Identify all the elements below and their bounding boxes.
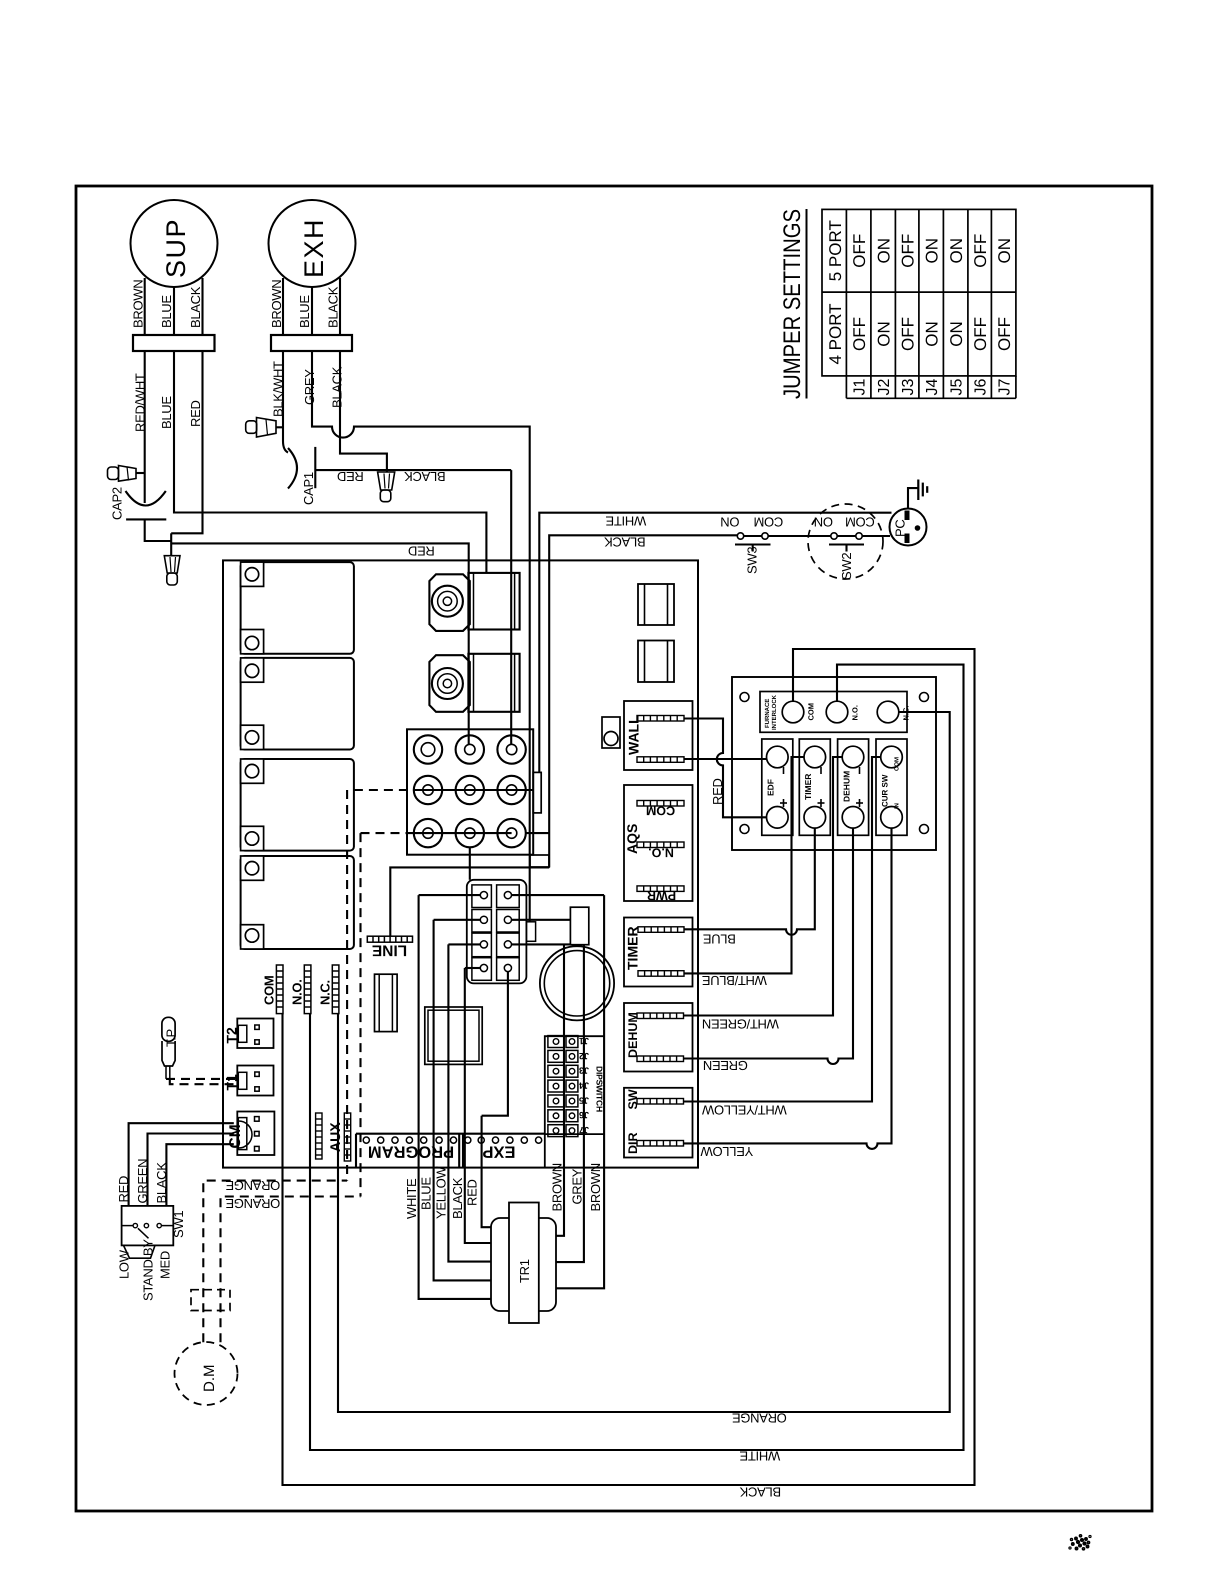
svg-text:J1: J1 (852, 379, 869, 396)
connector WALL (624, 701, 693, 770)
terminal block 9-pos (407, 729, 541, 854)
switch SW1 (122, 1206, 186, 1258)
wire SUP black (201, 278, 203, 335)
svg-text:WHT/BLUE: WHT/BLUE (701, 973, 766, 988)
svg-text:SW1: SW1 (171, 1211, 186, 1238)
wire RED from SUP (171, 351, 202, 533)
DIP switch block (548, 1036, 578, 1137)
dashed orange wire 2 (221, 1197, 361, 1343)
svg-text:ON: ON (875, 321, 894, 347)
wire nut splice EXH (378, 472, 395, 502)
relay K4 (241, 856, 354, 949)
svg-text:BLACK: BLACK (154, 1162, 169, 1204)
relay K2 (241, 658, 354, 750)
interlock strip CUR SW (876, 739, 907, 835)
wire TR1 blue (434, 920, 491, 1281)
connector T1 (224, 1066, 274, 1096)
svg-text:ON: ON (923, 321, 942, 347)
svg-text:BLUE: BLUE (159, 396, 174, 429)
svg-text:YELLOW: YELLOW (700, 1144, 753, 1159)
svg-text:COM: COM (262, 976, 277, 1005)
dashed link relay K3 to terminal (354, 789, 414, 791)
sensor by WALL (602, 717, 620, 748)
svg-text:T.P: T.P (164, 1029, 179, 1047)
svg-text:DEHUM: DEHUM (626, 1012, 640, 1058)
connector TIMER (624, 918, 693, 987)
svg-text:OFF: OFF (995, 317, 1014, 351)
wire pin1L to white riser (419, 894, 481, 896)
wire TR1 black (465, 968, 491, 1243)
wire interlock COM loop (BLACK) (283, 649, 975, 1485)
wire middle row bus (414, 789, 533, 791)
switch SW3 (735, 533, 771, 574)
svg-text:WHITE: WHITE (404, 1178, 419, 1219)
svg-text:GREEN: GREEN (703, 1058, 748, 1073)
svg-text:GREEN: GREEN (135, 1159, 150, 1204)
svg-text:OFF: OFF (899, 234, 918, 268)
wire nut CAP2 lead (108, 466, 145, 482)
svg-text:RED: RED (116, 1176, 131, 1203)
transformer TR1 (491, 1203, 556, 1324)
svg-text:GREY: GREY (570, 1168, 585, 1204)
svg-text:FURNACE: FURNACE (764, 699, 771, 728)
wire bottom-right to black riser (526, 832, 549, 834)
dashed wire T.P to T1 (166, 1079, 238, 1084)
dashed link relay K4 to terminal (361, 832, 414, 834)
svg-text:D.M: D.M (201, 1365, 218, 1393)
power plug PC (890, 509, 927, 546)
svg-text:OFF: OFF (850, 234, 869, 268)
wire WHT/YELLOW sw (684, 757, 881, 1102)
wire interlock N.C. loop (ORANGE) (338, 712, 950, 1412)
svg-text:TR1: TR1 (517, 1259, 532, 1283)
interlock strip EDF (762, 739, 793, 835)
svg-text:IN: IN (894, 803, 901, 809)
svg-text:N.O.: N.O. (290, 979, 305, 1005)
wire SW3 to SW2 (768, 535, 831, 537)
wire YELLOW dir with bump (684, 828, 892, 1149)
buzzer BZ1 (540, 946, 614, 1020)
wire RED/WHT (144, 351, 146, 503)
jumper settings table (779, 209, 1016, 399)
svg-text:OFF: OFF (899, 317, 918, 351)
svg-text:BLACK: BLACK (326, 286, 341, 328)
wire pin4L to black riser (465, 967, 481, 969)
connector AQS (624, 785, 693, 903)
svg-text:COM: COM (894, 757, 901, 771)
control board outline (223, 560, 698, 1167)
wire RED run to terminal (171, 543, 469, 745)
svg-text:T1: T1 (224, 1074, 240, 1091)
svg-text:TIMER: TIMER (803, 774, 813, 800)
wire pin3R to brown1 riser (512, 943, 571, 945)
svg-text:BLUE: BLUE (159, 295, 174, 328)
svg-text:ON: ON (947, 238, 966, 264)
svg-text:RED: RED (465, 1179, 480, 1206)
svg-text:BLACK: BLACK (404, 469, 446, 484)
svg-text:ORANGE: ORANGE (225, 1196, 280, 1211)
svg-text:ORANGE: ORANGE (732, 1410, 787, 1425)
wire bottom-middle stub down (469, 847, 471, 880)
wire bottom row bus (414, 832, 512, 834)
interlock strip DEHUM (838, 739, 869, 835)
svg-text:CUR SW: CUR SW (881, 774, 890, 807)
fuse component F3 (638, 641, 674, 683)
connector CN1 8-pin (467, 880, 536, 984)
svg-text:AUX: AUX (327, 1122, 343, 1152)
pin strip N.O. (304, 965, 311, 1014)
pin row circles (363, 1137, 542, 1143)
svg-text:RED: RED (408, 544, 435, 559)
motor EXH (269, 200, 356, 287)
wire GREEN dehum with bump (684, 828, 853, 1064)
wire CM green (148, 1134, 234, 1206)
relay RY1 (425, 1007, 482, 1064)
wire WHT/BLUE timer (684, 757, 804, 973)
HV terminal 1 (429, 573, 519, 631)
svg-text:OFF: OFF (971, 234, 990, 268)
wire EXH brown (282, 278, 284, 335)
fuse F1 (375, 974, 398, 1031)
component small box (530, 855, 549, 867)
svg-text:SW2: SW2 (839, 553, 854, 580)
svg-text:RED: RED (337, 469, 364, 484)
svg-text:COM: COM (807, 703, 816, 721)
svg-text:N.O.: N.O. (648, 846, 674, 860)
wire pin2R to component (512, 919, 571, 921)
svg-text:ON: ON (721, 515, 740, 530)
svg-text:N.O.: N.O. (851, 705, 860, 720)
wire WHT/GREEN dehum (684, 757, 842, 1016)
dashed riser to orange 1 (346, 790, 348, 1181)
wire TR1 red (482, 1116, 491, 1228)
svg-text:J3: J3 (900, 379, 917, 396)
svg-text:DEHUM: DEHUM (842, 771, 852, 802)
svg-text:OFF: OFF (850, 317, 869, 351)
svg-text:BROWN: BROWN (131, 280, 146, 328)
switch SW2 (808, 504, 883, 580)
interlock strip TIMER (799, 739, 830, 835)
svg-text:BLUE: BLUE (419, 1177, 434, 1210)
svg-text:PROGRAM: PROGRAM (368, 1143, 454, 1161)
wire SW2 to plug (862, 535, 890, 537)
program header band (356, 1134, 545, 1168)
wire GREY with crossover bump (312, 351, 530, 922)
connector bar EXH (271, 335, 352, 351)
damper coupling (191, 1290, 230, 1311)
svg-text:STAND BY: STAND BY (141, 1239, 156, 1301)
wire nut splice SUP (164, 556, 180, 585)
wire BLK/WHT (283, 351, 288, 453)
svg-text:COM: COM (646, 804, 675, 818)
jumper values row 5 PORT (850, 234, 1014, 268)
svg-text:BROWN: BROWN (588, 1163, 603, 1211)
svg-text:ON: ON (995, 238, 1014, 264)
wire TR1 brown 2 (556, 895, 604, 1288)
svg-text:J6: J6 (973, 379, 990, 396)
wire splice junction vertical (170, 533, 172, 555)
wire WHITE to plug (539, 513, 891, 773)
svg-text:CAP1: CAP1 (301, 472, 316, 505)
svg-text:WALL: WALL (626, 715, 642, 755)
DIP switch enclosure (545, 1036, 604, 1167)
svg-text:ON: ON (947, 321, 966, 347)
svg-text:RED: RED (188, 400, 203, 427)
ground (908, 480, 927, 509)
wire WALL top to EDF+ (684, 719, 767, 818)
svg-text:AQS: AQS (624, 824, 640, 854)
pin strip COM (276, 965, 283, 1014)
svg-text:BLACK: BLACK (188, 286, 203, 328)
svg-text:J2: J2 (876, 379, 893, 396)
svg-text:BLACK: BLACK (739, 1484, 781, 1499)
border frame (76, 186, 1152, 1511)
svg-text:J5: J5 (949, 379, 966, 396)
svg-text:WHITE: WHITE (739, 1448, 780, 1463)
svg-text:CAP2: CAP2 (110, 487, 125, 520)
svg-text:BROWN: BROWN (269, 280, 284, 328)
svg-text:BROWN: BROWN (550, 1163, 565, 1211)
svg-text:SW3: SW3 (745, 547, 760, 574)
wire BLACK from EXH (340, 351, 387, 472)
wire pin1R to brown2 riser (512, 894, 605, 896)
svg-text:JUMPER SETTINGS: JUMPER SETTINGS (779, 209, 806, 399)
wire CM red (129, 1123, 234, 1206)
wire nut CAP1 lead (246, 418, 283, 438)
svg-text:ON: ON (814, 515, 833, 530)
jumper labels J1-J7 (852, 379, 1014, 396)
wire BLACK to plug (549, 535, 737, 867)
svg-text:RED: RED (710, 778, 725, 805)
wire BLUE from SUP (174, 351, 486, 573)
wire TR1 grey (556, 945, 584, 1262)
connector T2 (224, 1019, 274, 1049)
svg-text:ON: ON (923, 238, 942, 264)
svg-text:DIPSWITCH: DIPSWITCH (595, 1066, 605, 1112)
relay K3 (241, 759, 354, 851)
wire pin3L to yellow riser (448, 943, 480, 945)
svg-text:COM: COM (754, 515, 783, 530)
wire CAP1 plate to splice (315, 469, 511, 471)
wire EXH black (339, 278, 341, 335)
wire SUP blue (173, 287, 175, 335)
svg-text:EDF: EDF (766, 779, 776, 796)
pin strip AUX right (344, 1113, 350, 1161)
svg-text:LOW: LOW (117, 1249, 132, 1279)
svg-text:PWR: PWR (647, 889, 676, 903)
pin strip AUX left (316, 1113, 322, 1159)
svg-text:N.C.: N.C. (318, 980, 333, 1005)
svg-text:BLUE: BLUE (702, 931, 735, 946)
wire BLUE timer with bump (684, 828, 815, 935)
pin strip LINE (367, 936, 412, 942)
connector bar SUP (133, 335, 215, 351)
furnace interlock panel (732, 677, 936, 850)
svg-text:EXH: EXH (299, 218, 329, 278)
wire TR1 brown 1 (556, 944, 564, 1235)
component box R2 (570, 907, 588, 945)
svg-text:PC: PC (893, 520, 908, 537)
wire WALL bottom to EDF- (684, 758, 767, 760)
wire TR1 yellow (448, 944, 491, 1261)
svg-text:COM: COM (845, 515, 874, 530)
printer mark (1069, 1535, 1090, 1550)
capacitor CAP1 (288, 447, 316, 505)
capacitor CAP2 (110, 487, 167, 520)
fuse component F2 (638, 584, 674, 625)
wire EXH blue (311, 287, 313, 335)
svg-text:BLACK: BLACK (450, 1177, 465, 1219)
svg-text:MED: MED (158, 1251, 173, 1279)
svg-text:SW: SW (626, 1089, 640, 1109)
wire SUP brown (144, 278, 146, 335)
pin strip N.C. (332, 965, 339, 1014)
svg-text:INTERLOCK: INTERLOCK (771, 694, 778, 730)
svg-text:ORANGE: ORANGE (225, 1178, 280, 1193)
svg-text:5 PORT: 5 PORT (826, 220, 845, 281)
dashed riser to orange 2 (359, 833, 361, 1196)
connector CM (227, 1112, 274, 1156)
svg-text:GREY: GREY (302, 369, 317, 405)
svg-text:BLUE: BLUE (297, 295, 312, 328)
connector DEHUM (624, 1003, 693, 1072)
svg-text:ON: ON (875, 238, 894, 264)
svg-text:SUP: SUP (161, 218, 191, 278)
svg-text:BLACK: BLACK (330, 366, 345, 408)
svg-text:T2: T2 (224, 1027, 240, 1044)
svg-text:4 PORT: 4 PORT (826, 303, 845, 364)
wire CAP2 to splice (145, 519, 172, 541)
svg-text:OFF: OFF (971, 317, 990, 351)
wire LINE riser (390, 867, 549, 936)
svg-text:WHT/YELLOW: WHT/YELLOW (701, 1102, 786, 1117)
jumper values row 4 PORT (850, 317, 1014, 351)
svg-text:YELLOW: YELLOW (434, 1166, 449, 1219)
HV terminal 2 (429, 654, 519, 712)
svg-text:TIMER: TIMER (625, 926, 641, 970)
svg-text:J7: J7 (997, 379, 1014, 396)
wire interlock N.O. loop (WHITE) (310, 665, 964, 1450)
svg-text:WHT/GREEN: WHT/GREEN (702, 1016, 779, 1031)
DIP jumper labels J1-J7 (579, 1036, 589, 1135)
motor SUP (131, 200, 218, 287)
svg-text:LINE: LINE (372, 942, 407, 959)
svg-text:EXP: EXP (482, 1143, 515, 1161)
dashed orange wire 1 (203, 1181, 347, 1343)
wire pin2L to blue riser (434, 919, 481, 921)
wire BLACK splice to terminal (510, 470, 512, 745)
wire TR1 white (419, 895, 491, 1299)
wire pin4R red link (482, 972, 508, 1116)
damper motor D.M (175, 1342, 238, 1405)
connector SW/DIR (624, 1088, 693, 1158)
svg-text:J4: J4 (924, 379, 941, 396)
wire CM black (166, 1144, 233, 1206)
sensor T.P (162, 1017, 179, 1079)
svg-text:DIR: DIR (626, 1132, 640, 1154)
svg-text:WHITE: WHITE (605, 514, 646, 529)
svg-text:BLACK: BLACK (604, 535, 646, 550)
relay K1 (241, 562, 354, 654)
